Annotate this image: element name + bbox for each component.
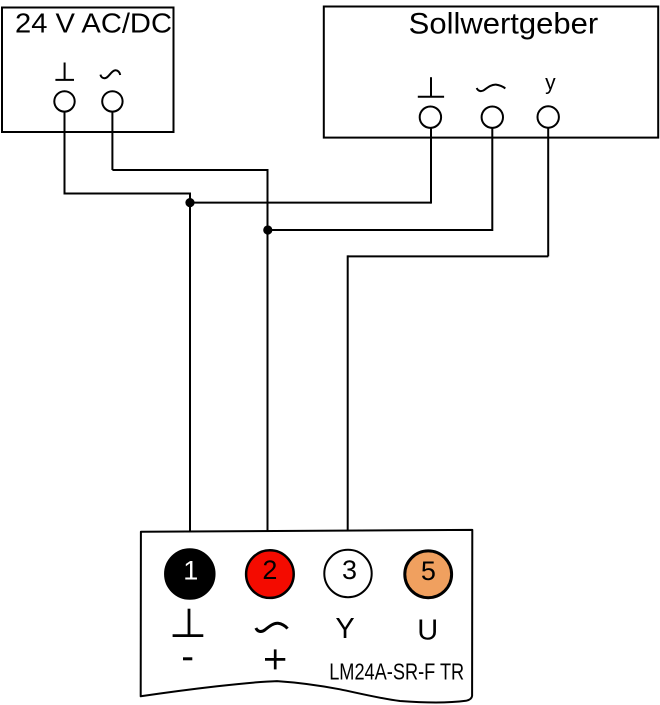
- terminal circle: supply ground: [54, 91, 74, 111]
- AC symbol (actuator terminal 2): [256, 623, 288, 631]
- wire: supply AC horizontal: [112, 169, 267, 171]
- wire: junction to Sollwertgeber AC: [268, 229, 493, 231]
- ground symbol (power supply): [55, 63, 74, 80]
- AC symbol (Sollwertgeber): [477, 85, 506, 92]
- wire: Sollwertgeber y down: [547, 128, 549, 256]
- wire: supply ground down: [64, 112, 66, 193]
- wire: supply AC down: [111, 112, 113, 170]
- svg-text:24 V AC/DC: 24 V AC/DC: [15, 8, 172, 39]
- setpoint box Sollwertgeber: [324, 7, 658, 138]
- svg-text:1: 1: [183, 556, 198, 586]
- svg-text:2: 2: [262, 555, 277, 585]
- terminal circle: Sollwertgeber AC phase: [482, 107, 503, 128]
- wire: y vertical to terminal 3: [347, 255, 349, 548]
- plus sign: [265, 649, 285, 669]
- terminal circle: Sollwertgeber y: [538, 106, 559, 127]
- AC symbol (power supply): [100, 70, 120, 78]
- wire: up into Sollwertgeber ground terminal: [430, 128, 432, 203]
- terminal 3 (white): [324, 550, 371, 597]
- junction node AC: [263, 225, 272, 234]
- wire: y horizontal: [348, 255, 549, 257]
- wire: supply ground horizontal: [64, 193, 191, 195]
- terminal 2 (red): [246, 550, 294, 598]
- svg-text:U: U: [417, 614, 438, 646]
- svg-text:Y: Y: [335, 613, 354, 645]
- svg-text:y: y: [545, 71, 556, 94]
- ground symbol (Sollwertgeber): [418, 77, 444, 97]
- minus sign: [183, 657, 192, 660]
- wire: ground vertical to terminal 1: [189, 193, 191, 549]
- wire: up into Sollwertgeber AC terminal: [491, 128, 493, 231]
- svg-text:5: 5: [421, 556, 436, 586]
- terminal circle: supply AC phase: [102, 91, 122, 111]
- svg-text:3: 3: [342, 555, 357, 585]
- terminal 1 (black): [165, 550, 214, 599]
- wire: AC vertical to terminal 2: [267, 169, 269, 550]
- terminal 5 (orange): [405, 551, 452, 598]
- svg-text:Sollwertgeber: Sollwertgeber: [409, 7, 599, 40]
- junction node ground: [185, 198, 194, 207]
- actuator outline LM24A-SR-F TR: [141, 530, 473, 703]
- wire: junction to Sollwertgeber ground: [190, 202, 431, 204]
- ground symbol (actuator terminal 1): [173, 609, 204, 636]
- terminal circle: Sollwertgeber ground: [420, 107, 441, 128]
- power supply box 24 V AC/DC: [2, 8, 174, 133]
- svg-text:LM24A-SR-F TR: LM24A-SR-F TR: [329, 658, 464, 684]
